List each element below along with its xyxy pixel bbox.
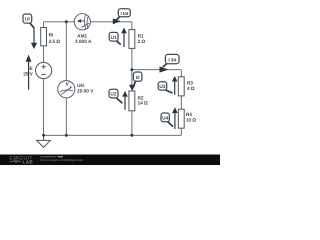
svg-text:I tot: I tot xyxy=(120,11,128,16)
svg-text:AM1: AM1 xyxy=(77,34,87,40)
annotation flag I 34 xyxy=(163,54,179,67)
voltage arrow U3 (up) xyxy=(172,76,178,95)
voltmeter VM (Ukl) xyxy=(58,81,75,98)
svg-text:R3: R3 xyxy=(187,81,193,87)
wire right corner to R3 top xyxy=(180,70,182,77)
ground xyxy=(37,135,51,147)
annotation flag I2 xyxy=(133,72,142,85)
svg-text:R1: R1 xyxy=(138,33,144,39)
voltage arrow U4 (up) xyxy=(172,107,178,129)
svg-text:14 Ω: 14 Ω xyxy=(138,100,148,106)
wire bottom horizontal xyxy=(44,134,182,136)
footer CircuitLab logo xyxy=(10,156,34,165)
voltmeter needle arrowhead xyxy=(70,86,72,88)
value label Ukl 20.00 V xyxy=(77,83,94,95)
wire R4 bottom to bottom wire xyxy=(180,128,182,135)
voltage arrow Ui (down) xyxy=(31,28,37,49)
svg-text:2.5 Ω: 2.5 Ω xyxy=(49,39,61,45)
value label R4 10 ohm xyxy=(186,112,196,123)
wire top horizontal right segment xyxy=(90,21,131,23)
node junction middle xyxy=(130,68,133,71)
svg-text:R4: R4 xyxy=(186,112,192,118)
svg-text:2.000 A: 2.000 A xyxy=(75,39,92,45)
node junction top (voltmeter tap) xyxy=(65,20,68,23)
annotation flag Ul xyxy=(23,14,34,28)
annotation flag U2 xyxy=(109,89,122,103)
wire top horizontal left segment xyxy=(44,21,75,23)
svg-text:GomesAarno / test: GomesAarno / test xyxy=(40,156,63,159)
value label AM1 2.000 A xyxy=(75,34,92,46)
svg-text:Ri: Ri xyxy=(49,33,54,39)
node junction bottom voltmeter xyxy=(65,134,68,137)
ammeter needle arrowhead xyxy=(77,19,81,23)
wire top-left corner to Ri top xyxy=(43,22,45,28)
current arrow I tot (right) xyxy=(113,18,121,24)
svg-text:I 34: I 34 xyxy=(168,57,176,63)
voltage arrow U1 (up) xyxy=(121,28,127,48)
svg-text:Ul: Ul xyxy=(25,17,30,23)
wire R1 top lead xyxy=(131,22,133,30)
svg-text:3 Ω: 3 Ω xyxy=(138,39,146,45)
wire voltmeter branch lower xyxy=(65,98,67,136)
current arrow I2 (down) xyxy=(129,85,136,91)
svg-text:U4: U4 xyxy=(162,116,168,122)
svg-text:U1: U1 xyxy=(111,35,117,41)
annotation flag I tot xyxy=(116,9,131,21)
wire voltmeter branch upper xyxy=(65,22,67,81)
resistor Ri xyxy=(41,28,47,46)
voltage arrow E (up) xyxy=(26,55,32,90)
resistor R1 xyxy=(129,30,135,49)
voltage arrow U2 (up) xyxy=(122,91,128,110)
svg-text:10 Ω: 10 Ω xyxy=(186,118,196,124)
node junction bottom R2 xyxy=(130,134,133,137)
value label R2 14 ohm xyxy=(138,96,148,107)
wire R3 bottom to R4 top xyxy=(180,96,182,109)
value label E 25 V xyxy=(23,66,33,78)
voltage source E xyxy=(36,62,52,78)
resistor R2 xyxy=(129,91,135,111)
value label R1 3 ohm xyxy=(138,33,146,45)
svg-text:20.00 V: 20.00 V xyxy=(77,89,94,95)
wire middle horizontal xyxy=(132,69,181,71)
svg-text:U2: U2 xyxy=(110,92,116,98)
value label R3 4 ohm xyxy=(187,81,195,92)
resistor R3 xyxy=(178,77,184,96)
current arrow I34 (right) xyxy=(160,66,169,72)
wire R1 bottom to middle node xyxy=(131,48,133,69)
svg-text:U3: U3 xyxy=(159,84,165,90)
wire Ri bottom to E source top xyxy=(43,46,45,63)
svg-text:LAB: LAB xyxy=(23,159,34,164)
svg-text:I2: I2 xyxy=(136,75,140,81)
svg-text:4 Ω: 4 Ω xyxy=(187,86,195,92)
svg-text:Ukl: Ukl xyxy=(77,83,84,89)
footer bar xyxy=(0,155,220,166)
value label Ri 2.5 ohm xyxy=(49,33,61,45)
resistor R4 xyxy=(178,109,184,128)
ammeter AM1 xyxy=(74,14,90,30)
annotation flag U3 xyxy=(158,82,172,93)
annotation flag U1 xyxy=(109,32,121,44)
node junction bottom-left (ground) xyxy=(42,134,45,137)
svg-text:http://circuitlab.com/c/8429jk: http://circuitlab.com/c/8429jk2/osobv xyxy=(40,159,84,162)
wire middle node to R2 top xyxy=(131,70,133,91)
wire E source bottom to ground junction xyxy=(43,79,45,136)
annotation flag U4 xyxy=(161,113,173,127)
wire R2 bottom to bottom wire xyxy=(131,111,133,136)
